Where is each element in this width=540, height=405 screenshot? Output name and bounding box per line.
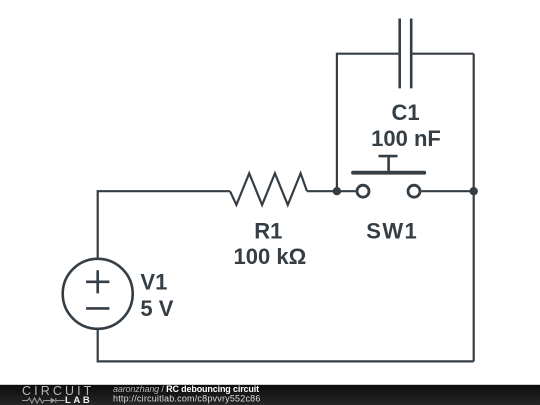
svg-text:LAB: LAB	[65, 395, 92, 405]
switch SW1	[353, 156, 424, 197]
capacitor C1	[400, 19, 412, 89]
wire node A up to C1 left plate	[337, 54, 399, 192]
svg-text:http://circuitlab.com/c8pvvry5: http://circuitlab.com/c8pvvry552c86	[113, 394, 261, 404]
svg-text:SW1: SW1	[366, 218, 418, 243]
wire right rail	[473, 54, 475, 362]
footer bar	[0, 385, 540, 405]
wire V1 plus terminal up to R1 left lead	[98, 191, 230, 259]
svg-text:5 V: 5 V	[140, 296, 173, 321]
svg-text:100 kΩ: 100 kΩ	[234, 244, 307, 269]
node B junction dot	[470, 187, 478, 195]
voltage source V1	[63, 259, 133, 329]
svg-text:C1: C1	[391, 100, 419, 125]
resistor R1	[230, 173, 307, 205]
wire SW1 right contact to right rail	[421, 190, 473, 192]
svg-text:R1: R1	[254, 218, 282, 243]
svg-text:100 nF: 100 nF	[371, 126, 441, 151]
svg-text:aaronzhang / RC debouncing cir: aaronzhang / RC debouncing circuit	[113, 384, 259, 394]
wire bottom return to V1 minus terminal	[98, 329, 474, 362]
svg-text:V1: V1	[140, 270, 167, 295]
wire C1 right plate to right rail	[413, 53, 474, 55]
logo resistor-diode symbol	[22, 398, 65, 403]
wire R1 right lead to SW1 left contact	[307, 190, 356, 192]
node A junction dot	[333, 187, 341, 195]
